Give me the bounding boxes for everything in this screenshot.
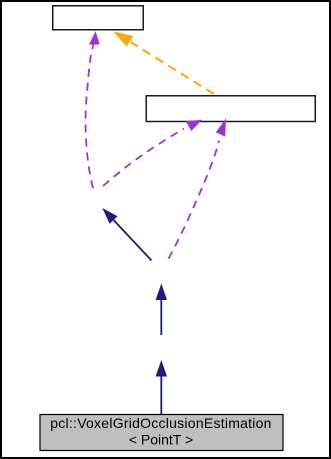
- arrowhead BL2: [156, 284, 167, 301]
- arrowhead P1: [89, 31, 100, 44]
- blue solid edge BL3: node N2 -> node N1: [114, 220, 152, 261]
- node C pcl::VoxelGridOcclusionEstimation< PointT >: [40, 415, 283, 451]
- arrowhead O1: [114, 32, 134, 47]
- node A (empty class box, top): [53, 6, 144, 30]
- arrowhead BL3: [102, 208, 117, 224]
- arrowhead E2: [186, 120, 202, 131]
- arrowhead E3: [216, 118, 226, 136]
- svg-text:pcl::VoxelGridOcclusionEstimat: pcl::VoxelGridOcclusionEstimation: [50, 415, 271, 431]
- orange dashed edge O1: node B -> node A (template instantiation): [131, 42, 215, 94]
- purple dashed edge E3: node N2 -> node B (right head): [169, 141, 220, 259]
- purple dashed edge E2: node N1 -> node B (left head): [103, 129, 184, 187]
- svg-text:< PointT >: < PointT >: [129, 432, 193, 448]
- purple dashed edge P1: node N1 -> node A: [86, 45, 94, 189]
- blue solid edge BL1: node C -> node E: [160, 376, 162, 414]
- blue solid edge BL2: node E -> node N2: [160, 300, 162, 336]
- arrowhead BL1: [156, 360, 167, 377]
- node B (empty class box, wide): [146, 96, 315, 122]
